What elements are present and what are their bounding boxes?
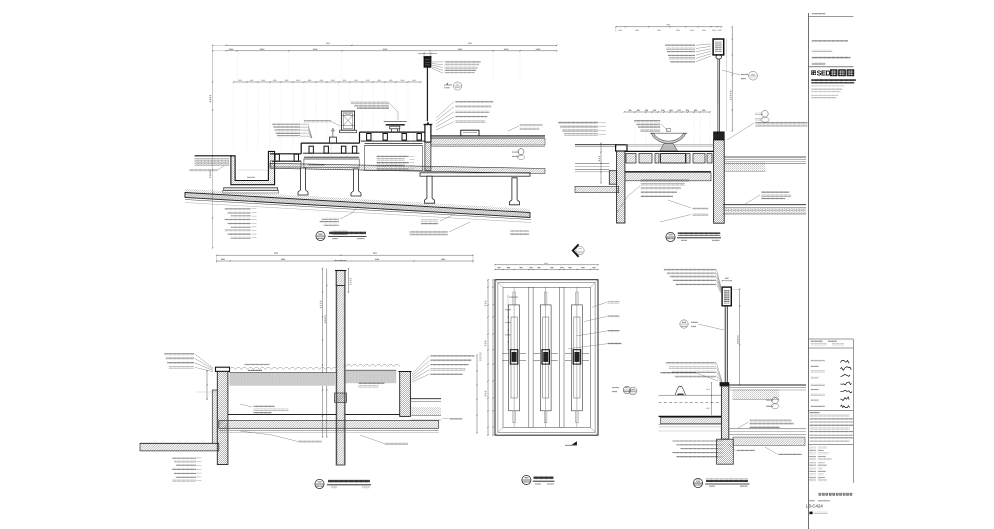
extension dotted verticals 2 [634,113,636,149]
trench inner dimension marks [247,177,255,179]
sloped ground stipple strip [185,189,530,213]
drawing 4: water feature lantern plan [480,262,631,485]
lamp pole [427,67,429,121]
lantern 1 tall body [509,305,520,411]
wall dim right short [348,269,350,293]
right elevation tags 5 [772,397,778,403]
project label small [812,50,832,52]
gravel band right bed [346,370,397,383]
upper right leader texts 5 rows [431,355,475,357]
left leader text block [272,123,300,125]
trench base slab [224,188,278,191]
left mid leader texts 4 rows [164,353,194,355]
wall footing 5 [717,439,734,464]
deck elevation tags [518,149,524,155]
pool level-2 floor lines and under box [304,156,359,158]
client name [812,40,848,42]
right side leader texts small [510,230,529,232]
right deck surface [431,135,545,137]
lamp fixture tag circle [454,82,462,90]
middle leader text block top [351,102,389,104]
plan outer frame [495,280,598,436]
dim chain top 3 tier1 [217,254,473,256]
plan left dim lines [487,280,489,436]
right elevation tags 2 [762,111,769,118]
plan inner frame [498,283,595,433]
section cut marker between drawings [576,246,584,254]
lantern 3 centerline [576,287,578,427]
title 1 reference circle [316,231,325,240]
shrub scallop line left bed [229,367,337,369]
dim chain plan top tier1 [495,264,598,266]
stone paving label [189,169,217,171]
lantern 3 core box [573,350,581,364]
pool floor hatch 5 [661,418,722,424]
pool floor tile blocks [626,154,636,164]
deck slab hatch [431,139,545,146]
interior leader texts 3 [254,406,275,408]
bottom-right leader texts [421,220,438,222]
sheet number row top [812,13,826,15]
lamp pole 5 [724,306,726,383]
project name [812,56,851,58]
soil label in bed [245,364,270,366]
notes section line [809,410,854,412]
left vertical dim column 2 [600,143,602,183]
right pool wall hatched with lamp base [714,140,725,223]
pool floor deck line [625,150,714,152]
right leader texts 5 [750,419,792,421]
drawing 3: planter wall section [140,252,478,488]
title 3 reference circle [315,479,324,488]
wall cap top dims [335,260,346,262]
mullion pair 2 [560,287,564,427]
sloped ground hatch band [185,193,530,218]
lamp 5 finial dims [722,280,731,282]
sunken trench walls [231,151,275,184]
dwg icon row [809,512,812,515]
notes text rows [810,415,850,417]
left planter wall hatched [217,371,228,464]
plan bottom flow arrow [572,441,577,445]
title block right strip [806,13,856,529]
lantern 2 tall body [540,305,551,411]
right mid leader texts [761,191,789,193]
pool interior dashed verticals 2 [312,144,314,156]
right upper leader texts 2 [755,122,807,124]
planter slab hatch band [219,421,439,429]
central pedestal block [661,154,686,164]
company bold address rows [811,79,856,81]
drawing 2: water feature edge section with lamp [558,24,807,257]
under box leader text block [377,155,409,157]
left vertical dimension line [212,45,214,248]
bottom-left leader rows 5 [672,440,718,442]
pool level-2 rim and coping blocks [300,143,302,154]
right lower slab 5 [729,428,806,430]
right stipple band 5 [733,389,780,399]
long dimension chain across pools [234,81,421,83]
signatures scribbles [841,360,850,363]
lamp tag circle 2 [749,71,758,80]
title 2 text [678,232,720,235]
lamp pole 2 [717,59,719,132]
fountain weir lintel [384,121,407,123]
concrete blinding label [298,440,322,442]
under-pool slab band sloped [270,163,545,173]
SED logo mark [811,70,816,75]
pool interior leader text block [641,180,689,182]
address small rows [811,85,844,87]
bowl pedestal [660,143,678,151]
remark box [809,338,854,340]
left lower leader text rows [172,457,196,459]
coping leader text 5 [661,372,697,374]
lantern 1 centerline [513,287,515,427]
bottom-middle leader texts [322,218,339,220]
pool coping left [616,145,627,151]
drawing 1: plaza water feature long section [185,43,557,249]
lamp tag circle 5 [680,320,688,328]
pool slab hatch band 2 [625,171,711,173]
left bed coping [216,367,230,371]
obelisk ornament in pool 2 [329,137,336,143]
svg-text:SED: SED [817,70,831,77]
pillar and deck leader labels right [455,101,493,103]
lamp leader labels [445,61,481,63]
lantern 2 crossbars [534,353,541,355]
vertical dim 5 [739,289,741,385]
right lower floor lines [723,204,806,206]
paving label right [449,418,462,420]
pool base labels [692,207,708,209]
lamp leader labels 2 [665,44,695,46]
dim chain top tier [226,44,557,46]
lantern 2 core box [542,350,550,364]
lantern 2 centerline [545,287,547,427]
dim chain top 3 tier2 [217,260,473,262]
title 1 text [329,231,366,234]
deck bench planter [461,130,479,136]
lantern 1 annotation dims [507,296,509,350]
drain texts in bed [358,382,384,384]
left slab hatch band 2 [575,186,619,192]
right plaza surface 5 [729,384,806,386]
wall vertical dim left [322,269,324,438]
left small dims [206,370,208,400]
pool floor 5 [659,415,722,417]
wall cap 5 [720,383,729,386]
title 2 reference circle [666,232,675,241]
logo CJK blocks [830,69,838,76]
small dims pool 5 [711,383,713,416]
shrub scallop line right bed [346,364,400,366]
pool interior dashed verticals 3 [372,133,374,143]
title 5 text [706,479,748,482]
central wall coping cap [336,271,345,286]
lamp head 2 [713,39,724,55]
title block right border [852,339,854,483]
title 4 text [534,476,554,479]
right paving outside planter [410,398,441,400]
upper-left paving slab lines [195,155,232,157]
left plaza paving lines [575,144,617,146]
wall 5 hatched [721,386,728,439]
bench labels far right [520,124,543,126]
dim chain top [616,26,722,28]
right vertical dim 2 [731,27,733,131]
dim extension dotted verticals [236,52,238,81]
left upper leader texts near bowl [634,120,660,122]
pool water line 5 [659,394,722,396]
lantern 1 core box [510,350,518,364]
pool coping label mid [304,120,331,122]
separator line under project [809,66,854,68]
plan right labels 4 rows [607,301,619,303]
svg-text:L3-C424: L3-C424 [806,504,823,509]
pillar with cap at pool end [425,125,431,143]
left leader text rows 2 [558,121,598,123]
info table rows [809,447,816,449]
sub-slab lines [219,430,439,432]
title 3 text [328,479,370,482]
right planter wall hatched [400,372,411,417]
title 4 reference circle [522,475,531,484]
gravel band left bed [229,373,336,386]
step footing block [609,171,616,185]
signature rows with labels [811,360,825,362]
mullion pair 1 [529,287,533,427]
dim chain second tier [226,50,557,52]
right gravel stipple band [724,162,765,171]
pool level-1 under box [270,161,301,167]
lamp 5 leader labels [664,268,716,270]
pool level-3 floor lines and under box [365,143,423,145]
right upper floor lines [724,156,806,158]
lantern 3 crossbars [565,353,572,355]
left footing step hatch [140,390,219,451]
fountain spray symbol [675,386,686,395]
planter interior floor [228,414,336,416]
left cut tag circle 5 [629,387,637,395]
lantern 1 crossbars [502,353,509,355]
pillar wall extension to slab [425,142,431,170]
dim chain above pool deck [624,111,710,113]
title 5 reference circle [693,478,702,487]
right vertical dim 3 [476,355,478,433]
dim chain plan top tier2 [495,269,598,271]
central tall wall hatched [336,286,345,466]
support columns [298,168,308,195]
corner miters [495,280,598,436]
lantern 3 tall body [572,305,583,411]
level marker triangle [447,83,449,85]
sheet title large [819,493,822,496]
pool dashed water line [659,402,722,404]
info table line [809,444,854,446]
plan tag circle right [623,386,631,394]
street lamp head [424,57,431,67]
walkway beam right [420,173,530,176]
pool level-3 rim and coping blocks [359,132,361,143]
sculpture plinth between pools [341,111,354,130]
lamp head 5 [722,287,731,306]
fountain bowl [651,133,686,143]
bottom-left leader text block 8 rows [225,208,251,210]
title block left border [808,13,810,529]
water surface lines [625,144,713,146]
drawing 5: pool edge wall with lamp section [629,268,806,487]
left pool wall hatched [617,151,625,223]
scale row [809,500,815,502]
mid leader texts 5 [666,362,716,364]
pool level-1 rim and blocks [270,153,301,155]
